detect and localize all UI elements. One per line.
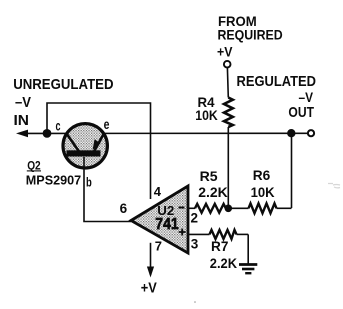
svg-text:2.2K: 2.2K	[210, 255, 237, 271]
op-amp U2	[131, 186, 188, 253]
svg-text:IN: IN	[14, 113, 30, 129]
label Q2 MPS2907	[26, 159, 81, 188]
wire pin 3 stub	[188, 233, 210, 235]
svg-text:OUT: OUT	[288, 104, 314, 121]
svg-text:4: 4	[154, 184, 162, 199]
svg-text:R5: R5	[200, 168, 218, 184]
svg-text:UNREGULATED: UNREGULATED	[13, 76, 113, 93]
label FROM REQUIRED +V	[217, 13, 283, 59]
node input junction	[43, 129, 52, 138]
wire feedback: node up, across, down to pin 4	[47, 103, 151, 199]
svg-text:+V: +V	[217, 44, 233, 60]
svg-text:–V: –V	[15, 95, 31, 111]
wire output node down to R6	[291, 133, 293, 208]
wire R4 down to divider junction	[227, 127, 229, 208]
wire input arrow (to -V IN)	[16, 130, 47, 138]
node output junction	[287, 129, 295, 137]
svg-text:R6: R6	[253, 167, 271, 183]
svg-text:6: 6	[120, 201, 128, 216]
resistor R6	[228, 167, 291, 213]
transistor Q2	[63, 124, 107, 168]
svg-text:741: 741	[155, 216, 179, 233]
svg-text:2: 2	[191, 210, 199, 225]
svg-text:7: 7	[155, 239, 162, 254]
wire base to pin 6	[84, 157, 131, 222]
svg-text:+V: +V	[141, 281, 157, 297]
svg-text:R7: R7	[211, 238, 229, 254]
svg-text:–V: –V	[299, 89, 314, 105]
svg-text:10K: 10K	[195, 107, 218, 123]
svg-text:c: c	[56, 117, 61, 133]
resistor R4	[195, 94, 233, 127]
wire R7 to ground	[247, 234, 249, 263]
wire pin 7 to +V arrow	[147, 243, 154, 278]
svg-text:2.2K: 2.2K	[198, 184, 228, 200]
label UNREGULATED -V IN	[13, 76, 113, 129]
terminal -V OUT	[308, 130, 314, 136]
svg-text:REGULATED: REGULATED	[237, 73, 317, 90]
svg-text:REQUIRED: REQUIRED	[218, 27, 283, 43]
ground	[239, 265, 257, 274]
svg-text:b: b	[86, 174, 92, 189]
terminal +V input	[224, 61, 231, 68]
wire pin 2 stub	[188, 207, 195, 209]
wire +V terminal to R4	[226, 68, 229, 98]
svg-text:3: 3	[191, 236, 199, 251]
node divider junction	[225, 205, 233, 213]
wire main rail c-e to output	[47, 132, 308, 134]
svg-text:e: e	[104, 116, 110, 132]
resistor R7	[210, 230, 249, 271]
resistor R5	[195, 168, 228, 213]
svg-text:MPS2907: MPS2907	[26, 173, 81, 187]
svg-text:10K: 10K	[251, 184, 275, 200]
label REGULATED -V OUT	[237, 73, 317, 121]
